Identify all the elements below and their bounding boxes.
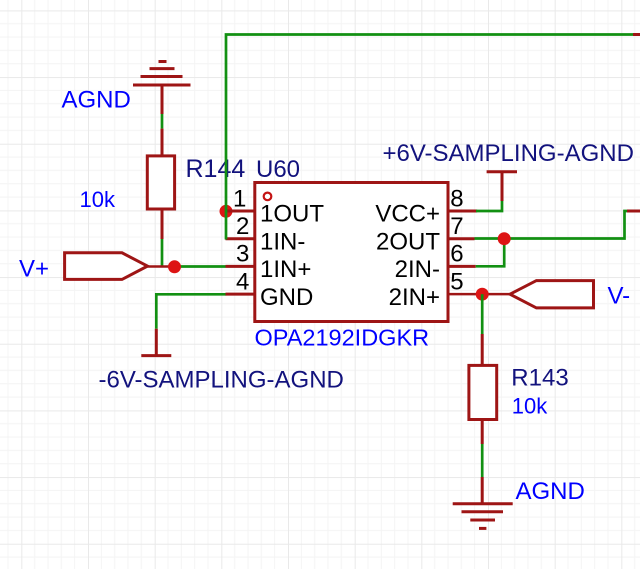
label OPA2192IDGKR: [255, 325, 430, 351]
pin 5 stub: [448, 293, 510, 296]
svg-text:10k: 10k: [512, 394, 548, 419]
pin name 1IN+: [260, 256, 311, 283]
pin 8 stub: [448, 210, 477, 213]
svg-text:U60: U60: [256, 156, 300, 183]
pin name VCC+: [375, 201, 440, 228]
pin stub offsheet top right: [633, 33, 640, 36]
svg-text:R144: R144: [186, 155, 246, 183]
svg-text:6: 6: [450, 241, 463, 268]
label AGND bottom: [516, 478, 585, 505]
svg-text:10k: 10k: [80, 187, 116, 212]
pin number 4: [236, 268, 249, 295]
svg-text:AGND: AGND: [516, 478, 585, 505]
wire AGND to R144: [161, 114, 164, 129]
pin number 8: [450, 185, 463, 212]
label V+: [19, 256, 49, 283]
svg-text:V+: V+: [19, 256, 49, 283]
pin number 2: [236, 213, 249, 240]
svg-text:4: 4: [236, 268, 249, 295]
svg-text:V-: V-: [608, 283, 631, 310]
ground AGND top: [133, 62, 191, 115]
power port +6V-SAMPLING-AGND: [487, 172, 517, 201]
label -6V-SAMPLING-AGND: [99, 367, 344, 394]
wire R143 to AGND: [481, 444, 484, 477]
svg-text:1OUT: 1OUT: [260, 201, 324, 228]
wire pin7 to offsheet right: [475, 211, 628, 239]
pin 6 stub: [448, 265, 476, 268]
svg-text:+6V-SAMPLING-AGND: +6V-SAMPLING-AGND: [383, 140, 634, 167]
wire pin8 to +6V power: [476, 201, 502, 211]
resistor R143: [469, 334, 497, 444]
pin stub offsheet right: [627, 210, 640, 213]
resistor R144: [147, 129, 174, 239]
pin name GND: [260, 284, 313, 311]
pin number 6: [450, 241, 463, 268]
label R143 designator: [511, 365, 568, 392]
svg-text:VCC+: VCC+: [375, 201, 440, 228]
svg-text:R143: R143: [511, 365, 568, 392]
port V-: [510, 281, 594, 308]
junction pin5 node: [476, 288, 489, 301]
pin number 1: [233, 185, 246, 212]
op-amp U60 body: [255, 183, 448, 322]
power port -6V-SAMPLING-AGND: [141, 329, 171, 356]
svg-text:2OUT: 2OUT: [376, 228, 440, 255]
svg-text:2IN+: 2IN+: [389, 284, 440, 311]
svg-text:5: 5: [450, 268, 463, 295]
pin number 5: [450, 268, 463, 295]
svg-text:3: 3: [236, 241, 249, 268]
pin 2 stub: [226, 237, 255, 240]
wire R144 to V+ node: [161, 239, 164, 267]
svg-text:1IN-: 1IN-: [260, 228, 305, 255]
pin 7 stub: [448, 237, 475, 240]
label U60 designator: [256, 156, 300, 183]
label R144 designator: [186, 155, 246, 183]
pin name 2IN+: [389, 284, 440, 311]
label +6V-SAMPLING-AGND: [383, 140, 634, 167]
svg-text:AGND: AGND: [62, 87, 131, 114]
port V+: [65, 253, 168, 280]
label R144 value 10k: [80, 187, 116, 212]
svg-text:OPA2192IDGKR: OPA2192IDGKR: [255, 325, 430, 351]
pin 1 indicator dot: [264, 193, 272, 201]
junction V+ node: [168, 260, 181, 273]
pin name 1OUT: [260, 201, 324, 228]
pin 1 stub: [226, 210, 255, 213]
pin name 2OUT: [376, 228, 440, 255]
junction pin7 node: [498, 232, 511, 245]
svg-text:2IN-: 2IN-: [395, 256, 440, 283]
svg-text:7: 7: [450, 213, 463, 240]
svg-text:GND: GND: [260, 284, 313, 311]
pin 3 stub: [226, 265, 255, 268]
wire feedback pin7 to pin6: [476, 239, 505, 267]
svg-text:-6V-SAMPLING-AGND: -6V-SAMPLING-AGND: [99, 367, 344, 394]
label V-: [608, 283, 631, 310]
pin name 1IN-: [260, 228, 305, 255]
ground AGND bottom: [453, 477, 513, 528]
label AGND top: [62, 87, 131, 114]
label R143 value 10k: [512, 394, 548, 419]
svg-text:8: 8: [450, 185, 463, 212]
pin 4 stub: [226, 293, 255, 296]
wire V+ node to pin 3: [168, 265, 226, 268]
pin number 3: [236, 241, 249, 268]
svg-text:1IN+: 1IN+: [260, 256, 311, 283]
pin number 7: [450, 213, 463, 240]
wire pin4 to -6V power: [156, 294, 226, 328]
svg-text:1: 1: [233, 185, 246, 212]
wire pin5 node to R143: [481, 294, 484, 334]
svg-text:2: 2: [236, 213, 249, 240]
wire top net 2OUT to offsheet: [226, 35, 633, 240]
pin name 2IN-: [395, 256, 440, 283]
junction pin1 node: [220, 205, 233, 218]
